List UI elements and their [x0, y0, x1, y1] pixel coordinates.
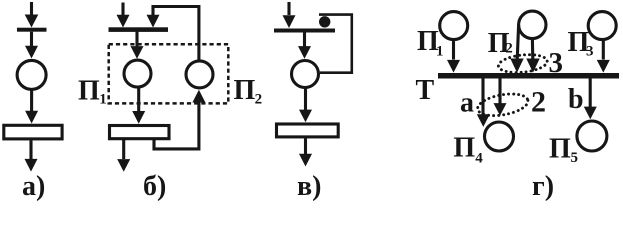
wire: output of action box (b) — [122, 140, 125, 159]
arrowhead T to P4 left (g) — [477, 114, 490, 127]
wire: place to action box (v) — [304, 89, 307, 111]
arrowhead external input into bar (b) — [117, 15, 130, 28]
arrowhead up into place P2 (b) — [192, 90, 205, 103]
wire: T to P4 right arc (g) — [498, 79, 501, 104]
arrowhead P2 right arc into T (g) — [526, 59, 539, 73]
svg-text:б): б) — [143, 171, 166, 202]
wire: bar to place (v) — [303, 33, 306, 47]
wire: input into bar (v) — [287, 2, 290, 15]
svg-text:2: 2 — [531, 86, 546, 119]
transition bar T (g) — [438, 73, 619, 79]
wire: loop from place P2 top to bar (b) — [153, 7, 199, 60]
wire: bar to place (a) — [30, 32, 33, 47]
place circle P4 (g) — [485, 122, 514, 151]
svg-text:1: 1 — [436, 44, 444, 60]
svg-text:3: 3 — [586, 44, 594, 60]
dotted multiplicity ellipse 3 (g) — [498, 52, 549, 74]
wire: T to P5 arc b (g) — [589, 79, 592, 108]
svg-text:b: b — [568, 84, 584, 115]
output arrowhead (a) — [25, 159, 38, 172]
wire: P2 to T right arc (g) — [531, 40, 534, 61]
arrowhead T to P5 (g) — [584, 107, 597, 120]
arrowhead P2 left arc into T (g) — [510, 59, 523, 73]
action rectangle (a) — [4, 125, 62, 139]
wire: P1 to transition T (g) — [452, 40, 455, 60]
place circle P1 (b) — [124, 60, 151, 87]
output arrowhead (b) — [117, 159, 130, 172]
svg-text:П: П — [453, 133, 475, 164]
arrowhead into place (a) — [25, 46, 38, 59]
wire: P2 to T left arc (g) — [517, 25, 518, 60]
arrowhead T to P4 right (g) — [494, 103, 507, 116]
svg-text:a: a — [460, 88, 474, 119]
arrowhead into bar (v) — [283, 15, 296, 28]
arrowhead loop into bar (b) — [147, 15, 160, 28]
place circle P1 (g) — [440, 12, 468, 40]
wire: action box to place P2 (b) — [154, 102, 199, 149]
dotted multiplicity ellipse 2 (g) — [476, 91, 530, 120]
wire: P3 to T (g) — [602, 40, 605, 60]
dashed grouping rectangle (b) — [109, 44, 229, 103]
place circle P2 (g) — [519, 11, 546, 38]
arrowhead into action box (b) — [132, 111, 145, 124]
action rectangle (v) — [277, 124, 339, 137]
transition bar (b) — [109, 27, 169, 32]
svg-text:г): г) — [532, 171, 554, 202]
output arrowhead (v) — [299, 154, 312, 167]
wire: external input into bar (b) — [121, 3, 124, 16]
svg-text:2: 2 — [505, 41, 513, 57]
svg-text:1: 1 — [99, 91, 107, 107]
transition bar (v) — [274, 29, 335, 33]
transition bar T (a) — [17, 28, 47, 32]
wire: output (v) — [304, 138, 307, 154]
arrowhead into place (v) — [298, 46, 311, 59]
arrowhead into action box (a) — [25, 111, 38, 124]
arrowhead into place P1 (b) — [131, 46, 144, 59]
inhibitor dot on bar (v) — [319, 16, 330, 27]
place circle (a) — [17, 60, 46, 89]
svg-text:в): в) — [297, 171, 321, 202]
svg-text:а): а) — [22, 171, 45, 202]
wire: output (a) — [29, 140, 32, 159]
svg-text:4: 4 — [475, 151, 483, 167]
place circle P5 (g) — [577, 121, 607, 151]
place circle P2 (b) — [186, 61, 213, 88]
svg-text:5: 5 — [571, 150, 579, 166]
action rectangle (b) — [110, 126, 170, 139]
svg-text:Т: Т — [416, 75, 435, 106]
svg-text:П: П — [549, 134, 571, 165]
svg-text:П: П — [78, 76, 100, 107]
place circle (v) — [292, 61, 319, 88]
svg-text:2: 2 — [255, 91, 263, 107]
wire: place to action box (a) — [30, 91, 33, 112]
wire: T to P4 left arc a (g) — [481, 79, 484, 115]
arrowhead P1 into T (g) — [447, 60, 460, 73]
arrowhead into action box (v) — [299, 110, 312, 123]
wire: input into transition bar (a) — [30, 2, 33, 16]
wire: bar to place P1 (b) — [135, 32, 138, 48]
place circle P3 (g) — [588, 12, 616, 40]
svg-text:П: П — [234, 75, 256, 106]
arrowhead into bar (a) — [25, 15, 39, 28]
wire: inhibitor loop from place to dot (v) — [319, 15, 352, 73]
svg-text:3: 3 — [549, 47, 564, 79]
arrowhead P3 into T (g) — [597, 60, 610, 73]
wire: place P1 to action box (b) — [137, 88, 140, 112]
